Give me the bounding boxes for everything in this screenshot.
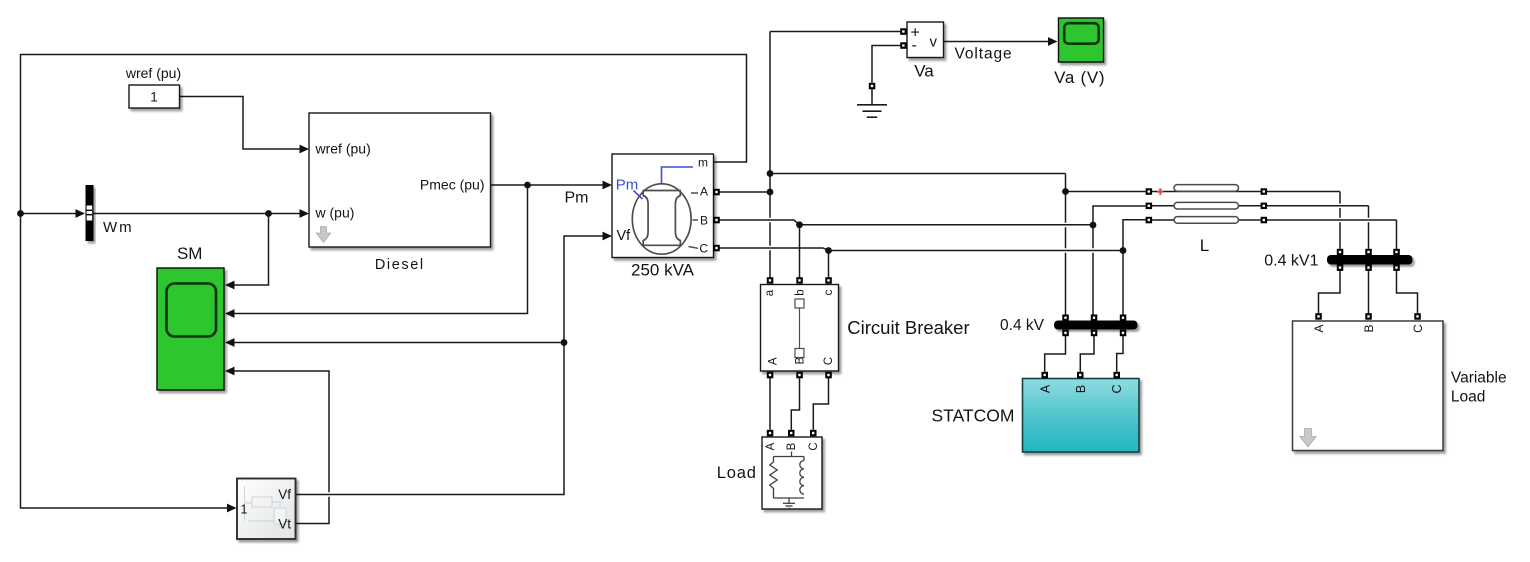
svg-text:A: A xyxy=(1039,384,1053,393)
svg-text:0.4 kV: 0.4 kV xyxy=(1000,317,1045,334)
svg-text:wref (pu): wref (pu) xyxy=(125,65,181,81)
svg-text:B: B xyxy=(700,213,708,227)
svg-text:Vf: Vf xyxy=(278,487,291,502)
svg-text:Load: Load xyxy=(1451,389,1485,406)
svg-text:Pmec (pu): Pmec (pu) xyxy=(420,177,485,193)
svg-text:C: C xyxy=(1411,324,1425,333)
svg-text:-: - xyxy=(912,37,917,54)
svg-text:250 kVA: 250 kVA xyxy=(631,261,695,280)
svg-text:B: B xyxy=(786,442,798,450)
svg-text:Load: Load xyxy=(717,464,757,482)
svg-text:Voltage: Voltage xyxy=(955,46,1013,63)
svg-text:A: A xyxy=(765,442,777,450)
svg-text:C: C xyxy=(823,357,835,365)
svg-text:1: 1 xyxy=(150,90,158,105)
svg-text:SM: SM xyxy=(177,244,203,263)
svg-text:Wm: Wm xyxy=(103,219,134,236)
svg-text:Va (V): Va (V) xyxy=(1054,68,1105,87)
svg-text:b: b xyxy=(795,289,807,295)
svg-text:c: c xyxy=(823,289,835,295)
svg-text:a: a xyxy=(764,289,776,296)
svg-text:Vf: Vf xyxy=(617,228,632,244)
svg-text:Diesel: Diesel xyxy=(375,257,425,273)
svg-text:Va: Va xyxy=(914,62,934,81)
svg-text:Pm: Pm xyxy=(616,176,639,193)
svg-text:STATCOM: STATCOM xyxy=(932,406,1015,426)
svg-text:Variable: Variable xyxy=(1451,369,1507,386)
svg-text:Circuit Breaker: Circuit Breaker xyxy=(847,317,969,338)
svg-text:B: B xyxy=(1074,385,1088,393)
svg-text:C: C xyxy=(699,242,708,256)
svg-text:A: A xyxy=(767,357,779,365)
svg-text:m: m xyxy=(698,156,708,170)
svg-text:L: L xyxy=(1200,236,1209,255)
svg-text:C: C xyxy=(808,442,820,450)
svg-text:0.4 kV1: 0.4 kV1 xyxy=(1264,252,1318,269)
svg-text:Pm: Pm xyxy=(565,190,589,207)
svg-text:Vt: Vt xyxy=(278,517,291,532)
svg-text:A: A xyxy=(700,184,708,198)
svg-text:B: B xyxy=(1362,324,1376,332)
svg-text:w (pu): w (pu) xyxy=(315,205,355,221)
svg-text:1: 1 xyxy=(241,503,248,517)
svg-text:v: v xyxy=(930,34,938,51)
svg-text:C: C xyxy=(1110,384,1124,393)
svg-text:wref (pu): wref (pu) xyxy=(315,141,371,157)
svg-text:A: A xyxy=(1312,324,1326,332)
